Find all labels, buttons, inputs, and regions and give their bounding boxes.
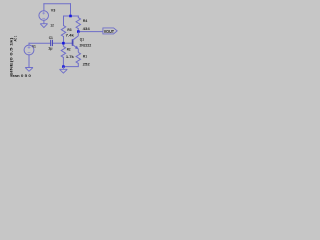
junction at ground node [62,65,65,68]
ground under V3 [40,24,47,28]
wire R4 bottom lead [77,29,79,32]
svg-text:252: 252 [83,63,90,67]
net flag VOUT [103,28,117,34]
wire R2 bottom lead [62,57,64,66]
wire rail between R3 and R4 [64,15,79,17]
wire base node to Q1 base [63,42,72,44]
resistor R2 [61,46,65,57]
svg-text:1µ: 1µ [48,47,52,51]
capacitor C1 [51,40,53,46]
svg-text:.tran 0 5 0: .tran 0 5 0 [10,73,31,78]
svg-text:R1: R1 [83,55,87,59]
ground under bias network [60,67,68,74]
junction at rail [69,15,72,18]
wire R4 top lead [77,16,79,18]
svg-text:V1: V1 [32,45,36,49]
wire C1 to base node [53,42,64,44]
wire R2 top lead [62,43,64,46]
svg-text:C1: C1 [49,36,53,40]
svg-text:434: 434 [83,27,90,31]
wire top rail from V3 to drop [44,3,71,5]
junction at base node [62,42,65,45]
junction at collector node [77,30,80,33]
wire V1 top lead [28,43,30,45]
wire V1 bottom lead [28,55,30,68]
resistor R4 [76,18,80,29]
wire R3 bottom lead [63,37,65,44]
svg-text:AC 1: AC 1 [14,36,18,42]
svg-text:Q1: Q1 [80,37,84,41]
svg-text:V3: V3 [51,9,56,13]
svg-text:2N2222: 2N2222 [80,44,92,48]
wire R1 bottom to ground rail [63,63,78,66]
svg-text:7.4k: 7.4k [66,34,74,38]
resistor R3 [61,26,65,37]
voltage source V1 [24,45,34,55]
svg-text:R3: R3 [67,28,71,32]
wire collector node to VOUT flag [78,31,103,33]
voltage source V3 [39,11,49,21]
svg-text:1.7k: 1.7k [66,55,74,59]
svg-text:R4: R4 [83,19,88,23]
ground under V1 [25,68,33,72]
resistor R1 emitter [76,52,80,63]
wire V1 to C1 [29,42,51,44]
svg-text:12: 12 [50,24,53,28]
wire rail drop [70,4,72,16]
svg-text:SINE(0 0.5 1k): SINE(0 0.5 1k) [10,38,14,77]
svg-text:VOUT: VOUT [104,29,115,34]
transistor Q1 [73,32,79,53]
wire V3 bottom lead [43,20,45,23]
svg-text:R2: R2 [67,47,71,51]
wire V3 top lead [43,4,45,11]
wire R3 top lead [63,16,65,26]
